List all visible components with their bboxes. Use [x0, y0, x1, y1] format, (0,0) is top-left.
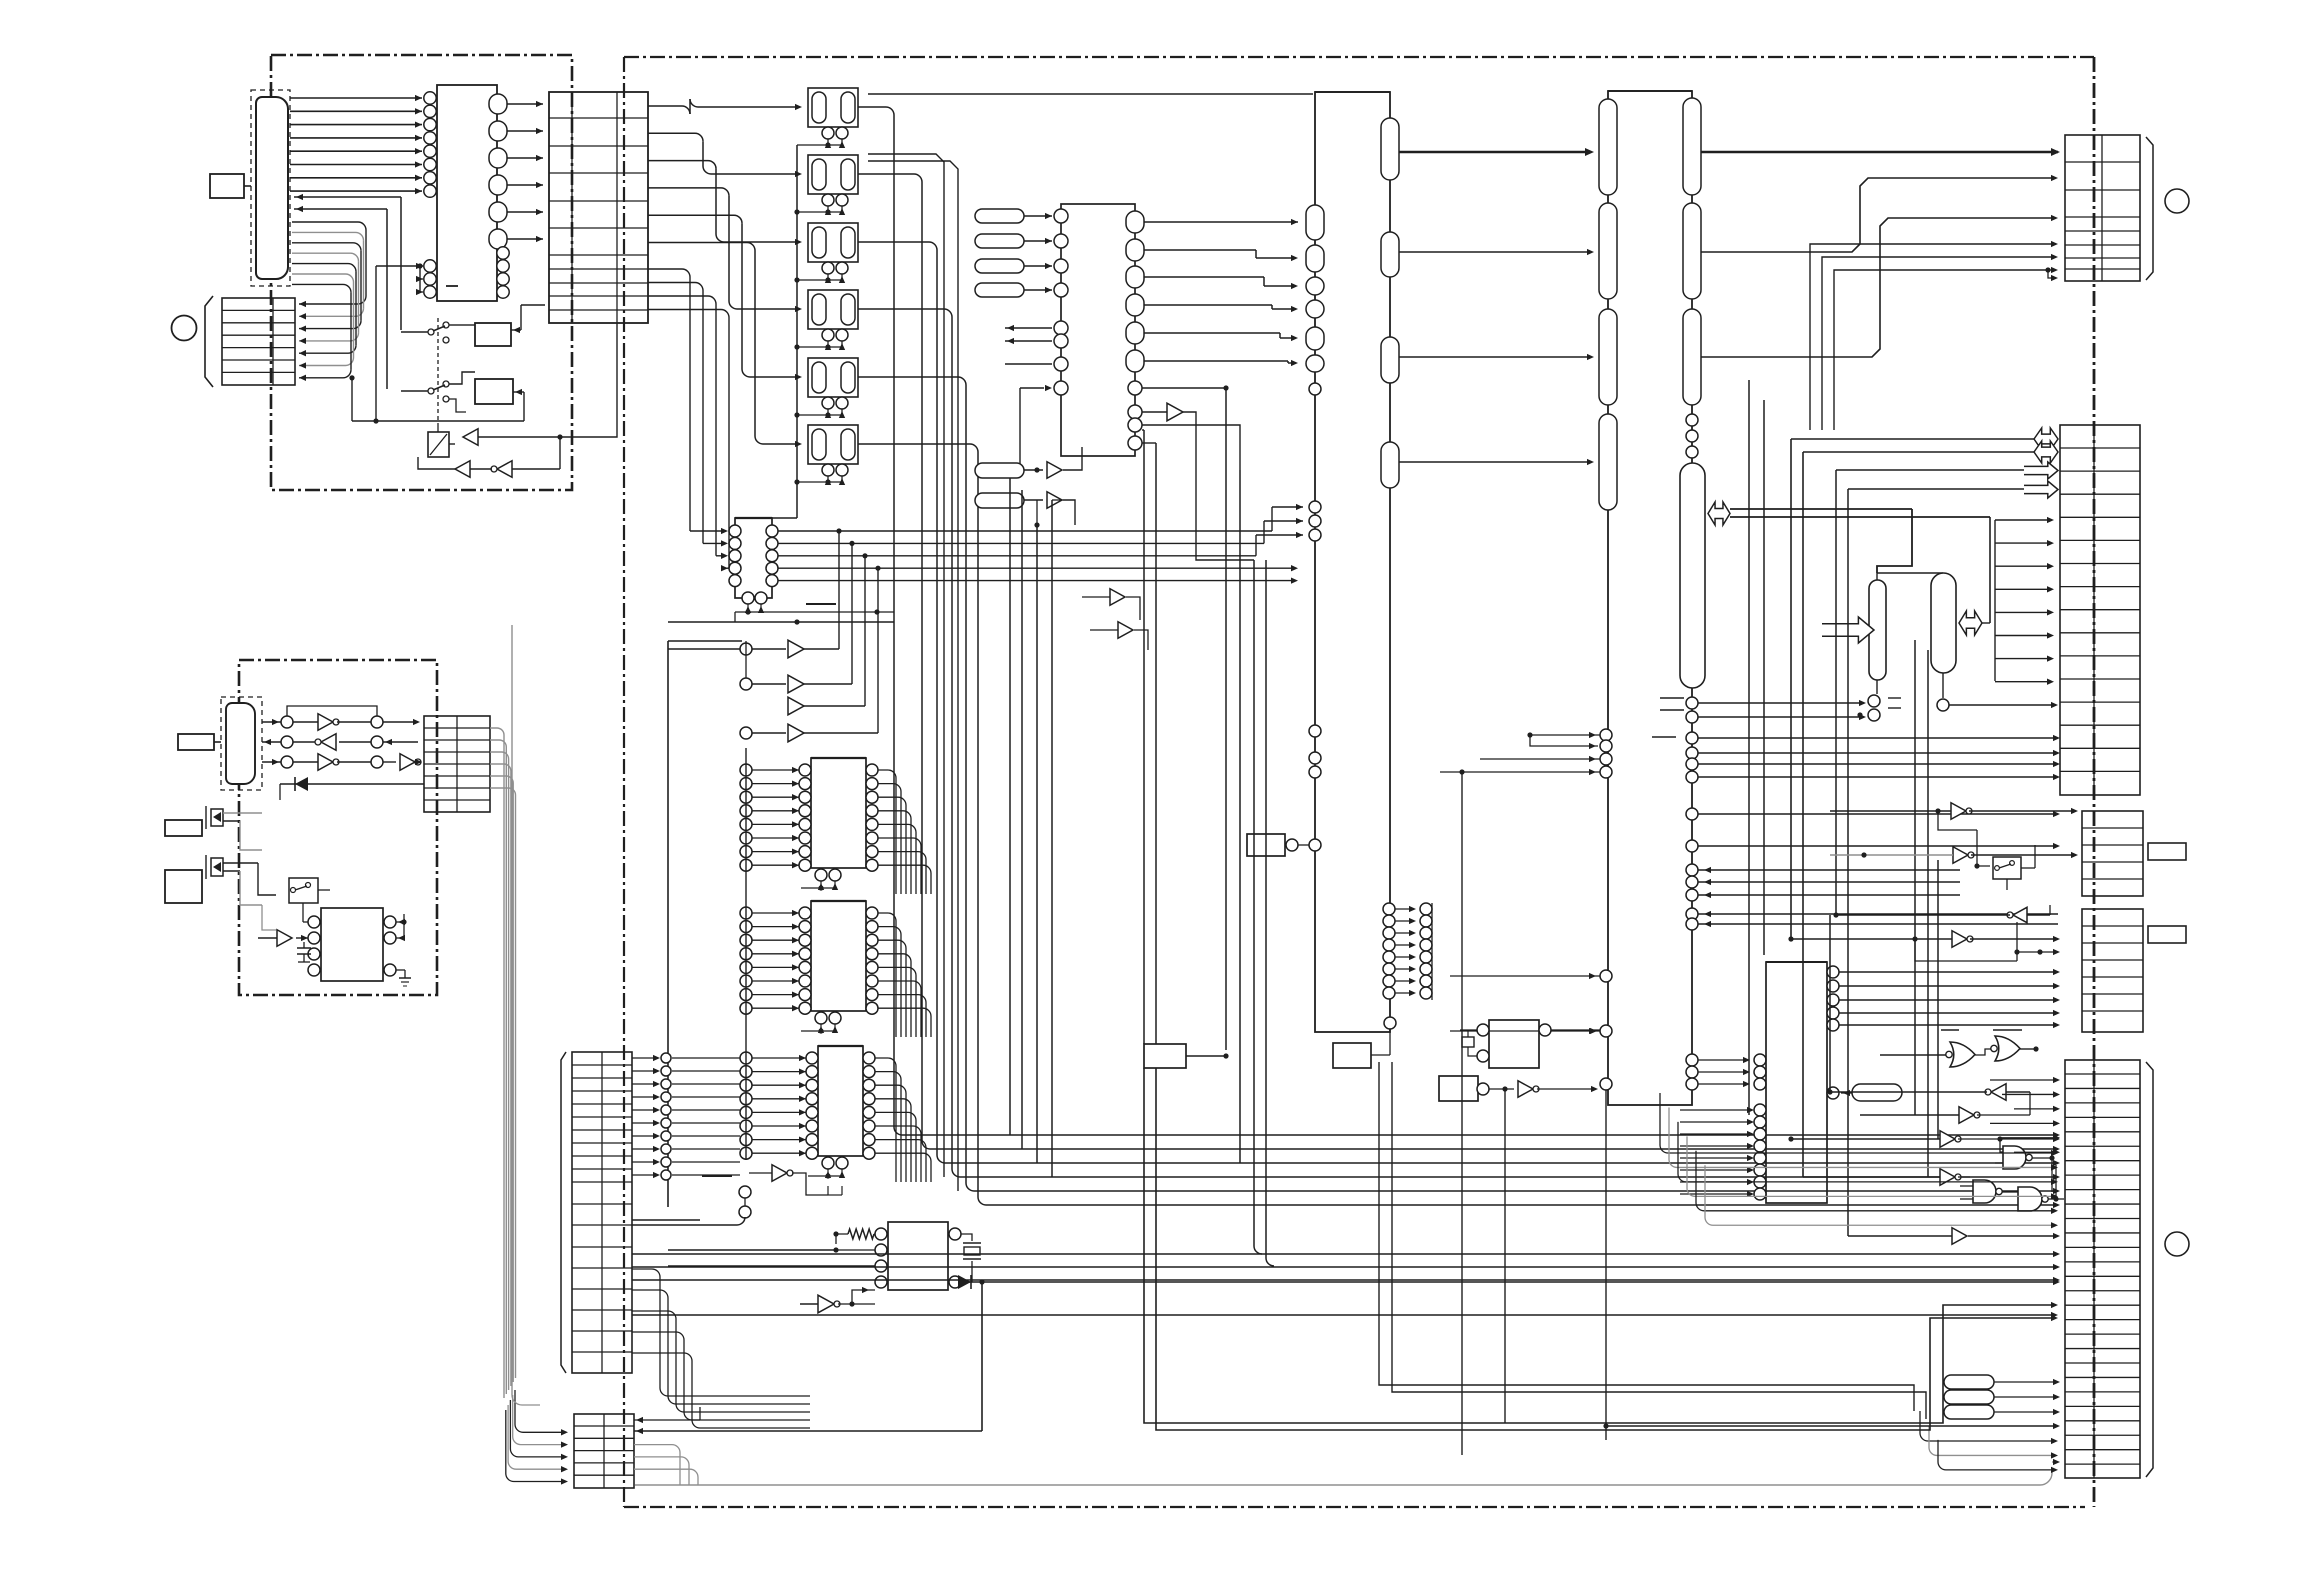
trunk x1144 — [1143, 430, 1145, 1044]
buffer U307b — [749, 1165, 842, 1195]
wire fan into CN505 bottom — [1920, 1411, 2058, 1473]
wires IC101 to CN102 — [507, 101, 543, 242]
IC F (gate array IC401) — [1306, 92, 1432, 1032]
buffer B101 — [449, 429, 563, 446]
connector CN202 — [424, 716, 490, 812]
gate labels — [1941, 1029, 2022, 1031]
IC U201 oscillator — [258, 908, 411, 986]
connector CN502 — [2060, 425, 2140, 795]
buffer U309 — [800, 1287, 875, 1313]
buffer V503 — [1827, 1084, 2030, 1105]
box A102 — [475, 379, 524, 421]
relay RY101 — [797, 88, 858, 148]
buffer U302a — [1142, 403, 1254, 560]
relay RY105 — [797, 358, 858, 418]
nand N502 — [1960, 1180, 2018, 1203]
IC101 lower pin feeds — [376, 263, 458, 295]
IC U301 — [975, 204, 1144, 470]
bus F to G row3 — [1399, 354, 1594, 360]
trunk x1022 — [1021, 490, 1023, 1149]
bus into CN501 row2 — [1701, 175, 2058, 252]
wires into CN505 upper — [1603, 1423, 2060, 1429]
connector CN301 — [561, 1052, 632, 1373]
main board boundary top — [624, 56, 2094, 58]
clock pill CL302 — [975, 492, 1075, 528]
pills PW501 — [1944, 1375, 2060, 1419]
trunk x1010 — [1009, 478, 1011, 1135]
big arrow into X501 — [1822, 617, 1874, 643]
trunk x1830 — [1829, 915, 1831, 1092]
trunk x1915 — [1914, 640, 1916, 1115]
plug P101 — [210, 174, 251, 198]
main board boundary left — [623, 57, 625, 1507]
trunk x1240 — [1239, 470, 1241, 1163]
buffer V505 — [1788, 1131, 2060, 1148]
double arrow X502 — [1959, 517, 1990, 635]
buffer V311 — [1090, 622, 1148, 650]
motor M101 — [172, 296, 214, 387]
nested frame y1423 — [1144, 1053, 2058, 1430]
connector CN102/CN103 grid — [549, 92, 648, 323]
trunk x1749 — [1748, 380, 1750, 1115]
wire S102 feed — [352, 266, 524, 424]
double arrow G right — [1708, 502, 1990, 573]
relay RY102 — [797, 155, 858, 215]
box A201 — [165, 820, 202, 836]
buffer V506 — [1803, 1169, 1970, 1186]
relay RY103 — [797, 223, 858, 283]
buffer B102 — [418, 437, 560, 477]
D-sub connector CN101 body — [256, 97, 288, 279]
buffer V500a — [1830, 803, 2078, 830]
box A401 with pin — [1247, 834, 1309, 856]
wire CN302 long row — [636, 1428, 643, 1434]
switch S102 — [401, 372, 475, 412]
relay common trunk — [750, 145, 800, 518]
pin trunk x1432 — [1431, 903, 1433, 1000]
nand N503 — [2018, 1165, 2064, 1211]
trunk x1254 — [1254, 560, 1262, 1254]
connector pill X502 — [1931, 573, 2058, 711]
jack J201 — [206, 806, 262, 829]
IC U307 — [740, 1046, 931, 1182]
trunk x1156 — [1155, 443, 1157, 1044]
pins CN301 to U307 — [632, 1053, 740, 1180]
box A501 — [2148, 843, 2186, 860]
nand N501 — [1995, 1139, 2055, 1192]
switch S101 — [401, 318, 475, 426]
wires into CN502 — [1791, 439, 2034, 1236]
buffer V500b — [1830, 830, 2078, 869]
module boundary (jack board) — [239, 660, 437, 995]
diode D301 — [852, 1275, 2060, 1304]
trunk x1266 — [1266, 560, 1274, 1266]
connector CN505 — [2065, 1060, 2153, 1478]
ic U310 — [1460, 1020, 1600, 1068]
inverter V501 — [1833, 905, 2050, 923]
D-sub connector CN201 (dashed outline) — [221, 697, 262, 790]
screw hole right top — [2165, 189, 2189, 213]
relay RY104 — [797, 290, 858, 350]
trunk x1928 — [1927, 650, 1929, 1177]
box A302 — [1144, 1044, 1226, 1068]
IC IC101 — [424, 85, 509, 301]
inner frame bottom — [634, 1284, 982, 1431]
wire bundle CN202 down — [490, 728, 516, 1398]
plug P201 — [178, 734, 221, 750]
wire pair to CN505 bottom — [1379, 1062, 1926, 1419]
IC G (microcontroller IC501) — [1599, 91, 1705, 1105]
label bar U307 — [702, 1175, 732, 1177]
wire U301 pin outputs — [1142, 385, 1240, 1050]
label bar U303 — [806, 603, 836, 605]
bus F to G row4 — [1399, 459, 1594, 465]
trunk x1037 — [1036, 525, 1038, 1163]
wire top y94 — [868, 93, 1313, 95]
box A502 — [2148, 926, 2186, 943]
bus group y1254 — [632, 1251, 2060, 1318]
wire bus CN101 to IC101 — [290, 95, 422, 194]
bus into CN501 row3 — [1701, 215, 2058, 357]
screw hole right bottom — [2165, 1232, 2189, 1256]
trunk x1764 — [1763, 400, 1765, 955]
D-sub connector CN201 body — [226, 703, 255, 784]
switch S201 — [289, 878, 330, 912]
trunk x1052 — [1052, 500, 1063, 1177]
wire bundle out of CN302 — [634, 1445, 698, 1485]
box IC402 — [1333, 1029, 1390, 1068]
or gate G502 — [1975, 1036, 2039, 1061]
bus F to G row1 (heavy) — [1399, 148, 1594, 156]
wire bundle CN301 lower — [632, 1269, 810, 1428]
connector CN504 — [2082, 909, 2143, 1032]
wire fan into CN502 — [1995, 517, 2054, 685]
inner frame left — [668, 641, 742, 1207]
bus CN301 h1220 — [632, 1217, 745, 1225]
trunk x1938 — [1937, 860, 1939, 1139]
box A303 — [1439, 1076, 1598, 1423]
IC U303 buffer array — [648, 269, 1303, 622]
IC G pin labels — [1652, 698, 1684, 737]
wire return to CN101 pin9 — [294, 194, 401, 330]
wire bundle into CN302 — [506, 1390, 568, 1485]
buffer V310 — [1082, 589, 1140, 620]
double arrows into CN502 — [2024, 428, 2058, 498]
diode D201 — [280, 777, 424, 800]
bus into CN501 rows lower — [1810, 241, 2058, 430]
jack J202 — [206, 855, 258, 879]
bus F to G row2 — [1399, 249, 1594, 255]
main board boundary bottom — [624, 1506, 2085, 1508]
vertical trunk x746 — [739, 748, 751, 1218]
relay RL101 — [428, 426, 449, 457]
module boundary (control panel board) — [271, 55, 572, 490]
wires into IC G lower-left pins — [1440, 732, 1606, 1455]
wire staircase grid to relays and output bus — [648, 99, 2060, 1208]
or gate G501 — [1880, 1042, 1975, 1067]
connector CN302 — [574, 1414, 634, 1488]
box A101 — [475, 305, 545, 346]
corner wires x944 — [868, 154, 958, 1191]
gray drop x512 — [512, 625, 540, 1405]
connector CN503 — [2082, 811, 2143, 896]
box SW501 — [1993, 845, 2035, 890]
wire fan into CN505 mid — [1660, 1093, 2058, 1228]
buffer V502 — [1788, 922, 2060, 961]
wire trunk S101 — [560, 323, 617, 437]
crystal oscillator X301/U308 — [668, 1222, 981, 1290]
wire CN302 row1 — [634, 1407, 700, 1423]
bus line h622 — [668, 619, 894, 624]
wires CN201 lower — [240, 821, 276, 930]
buffer V504 — [1860, 1105, 2030, 1123]
IC H (latch IC502) — [1680, 962, 2060, 1203]
connector pill X501 — [1857, 573, 1943, 721]
short wires into CN505 — [1990, 1077, 2060, 1156]
connector CN501 — [2065, 135, 2153, 281]
box A202 — [165, 870, 202, 903]
wire return to CN101 pin10 — [294, 206, 387, 389]
D-sub connector CN101 (dashed outline) — [251, 90, 290, 286]
buffer V507 — [1848, 1228, 2060, 1245]
buffer row U202 — [262, 706, 422, 770]
wire bundle CN101 to CN104 — [292, 222, 366, 381]
connector CN104 — [222, 298, 295, 385]
bus U301 to IC F — [1144, 219, 1298, 366]
IC G right pins and buses — [1686, 697, 2060, 1090]
buffer row U304 — [668, 528, 881, 741]
IC U305 — [740, 758, 931, 894]
bus into CN501 row1 (heavy) — [1701, 148, 2060, 156]
main board boundary right — [2093, 57, 2096, 1507]
IC U306 — [740, 901, 931, 1037]
clock pill CL301 — [975, 447, 1082, 478]
pill P501 — [1841, 1084, 1902, 1101]
relay RY106 — [797, 425, 858, 485]
ground bus (gray) — [635, 1459, 2060, 1485]
